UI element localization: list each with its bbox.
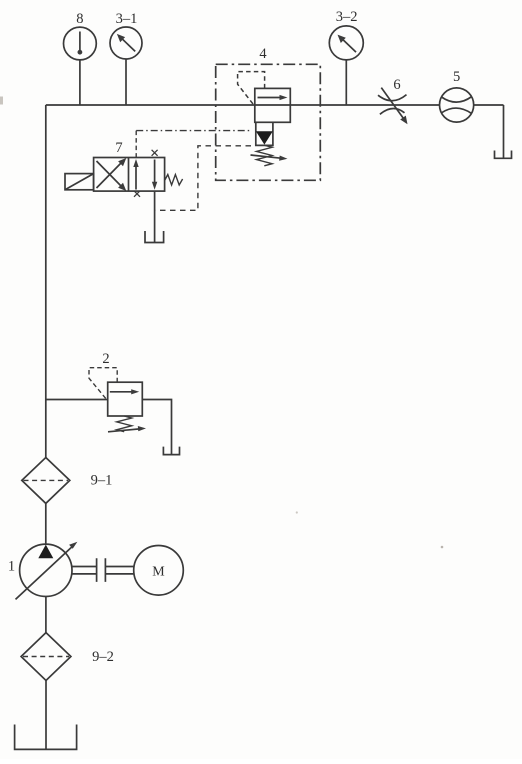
- pilot wire down to valve U7 (dashed): [135, 131, 137, 158]
- svg-text:3–2: 3–2: [336, 9, 358, 25]
- wire: pump to filter 9-2: [45, 597, 47, 633]
- svg-text:M: M: [152, 565, 165, 580]
- svg-text:8: 8: [76, 11, 83, 27]
- valve U2 adjustment arrow: [108, 429, 140, 432]
- valve U2 pilot sensing line (dashed loop): [89, 368, 117, 400]
- thermometer U8 stem wire: [79, 60, 81, 105]
- valve U4 spring: [256, 145, 272, 166]
- wire: valve U7 to tank: [154, 191, 156, 242]
- wire: main pressure line horizontal (right segment after flow meter): [474, 104, 504, 106]
- wire: filter 9-2 to suction tank: [45, 681, 47, 750]
- solenoid coil of U7: [65, 174, 94, 190]
- svg-text:7: 7: [115, 140, 122, 156]
- pressure gauge 3-2: [329, 26, 363, 60]
- valve U2 spring: [117, 416, 132, 432]
- svg-text:4: 4: [259, 46, 267, 62]
- tank T5 (right outlet tank): [495, 151, 512, 159]
- svg-text:2: 2: [102, 351, 109, 367]
- svg-text:9–1: 9–1: [91, 473, 113, 489]
- pump U1: [20, 544, 72, 596]
- pump U1 variable displacement arrow: [16, 546, 74, 600]
- enclosure box 4 (dash-dot frame): [216, 64, 321, 180]
- valve U7 return spring: [165, 175, 183, 186]
- svg-text:9–2: 9–2: [92, 649, 114, 665]
- throttle valve 6 (lower arc): [380, 108, 405, 114]
- wire: main pressure line horizontal (left segment): [46, 104, 440, 106]
- tank T1 (main suction tank): [15, 725, 77, 750]
- svg-text:5: 5: [453, 69, 460, 85]
- tank T2 (relief valve tank): [163, 447, 179, 455]
- wire: branch to relief valve 2: [46, 399, 108, 401]
- valve U4 pilot sensing line (dashed loop): [238, 72, 265, 105]
- valve U7 down arrow (right position): [154, 160, 156, 185]
- valve U4 internal flow arrow: [258, 97, 284, 99]
- svg-text:6: 6: [393, 77, 400, 93]
- throttle valve 6 adjustment arrow: [381, 88, 403, 119]
- thermometer U8: [64, 27, 97, 60]
- valve U4 adjustment arrow: [251, 155, 282, 158]
- svg-text:3–1: 3–1: [116, 11, 138, 27]
- shaft coupling between pump and motor: [72, 567, 97, 574]
- relief valve U2 body: [108, 382, 143, 416]
- valve U7 blocked port mark (bottom): [134, 191, 140, 197]
- speck artifact: [441, 546, 444, 549]
- valve U2 internal flow arrow: [110, 391, 135, 393]
- valve U4 poppet chamber: [256, 122, 273, 145]
- filter 9-2: [21, 633, 71, 681]
- drain wire from valve 4 spring chamber (dashed): [155, 146, 251, 211]
- solenoid valve U7 body: [94, 158, 165, 192]
- pressure gauge 3-2 stem wire: [345, 60, 347, 105]
- edge smudge: [0, 97, 3, 105]
- valve U4 poppet (black triangle): [256, 131, 273, 144]
- wire: right drop to tank: [503, 105, 505, 158]
- motor M1: [134, 546, 184, 596]
- valve U7 position divider: [128, 158, 130, 192]
- pressure gauge 3-1 stem wire: [125, 59, 127, 105]
- valve U7 blocked port mark (top): [152, 150, 158, 156]
- valve U7 crossed arrows (left position): [97, 161, 124, 188]
- flow meter U5: [440, 88, 474, 122]
- pump U1 outlet triangle: [38, 545, 53, 559]
- svg-text:1: 1: [8, 559, 15, 575]
- filter 9-1: [22, 458, 70, 504]
- wire: left main vertical line: [45, 105, 47, 458]
- wire: filter 9-1 to pump: [45, 503, 47, 544]
- valve U7 up arrow (right position): [135, 164, 137, 190]
- pressure gauge 3-1: [110, 27, 142, 59]
- wire: valve U2 outlet to tank: [142, 400, 171, 455]
- valve U4 body: [255, 88, 290, 122]
- pilot wire from valve 7 to valve 4 (dash-dot): [136, 130, 252, 132]
- throttle valve 6 (upper arc): [378, 95, 407, 101]
- tank T7 (valve 7 drain tank): [145, 231, 164, 243]
